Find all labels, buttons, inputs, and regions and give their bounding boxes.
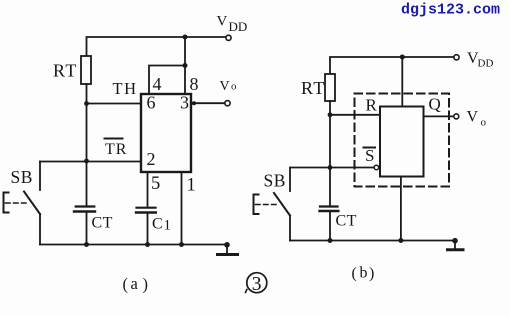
capacitor CT (b) [320,205,338,207]
node: inversion bubble S input [374,165,379,170]
svg-text:RT: RT [301,78,326,98]
svg-text:SB: SB [11,167,33,187]
resistor RT (b) [325,74,335,101]
label TR with overline [105,141,127,158]
node: junction top rail (b) [400,55,405,60]
figure number 3 circled [247,273,267,293]
svg-text:2: 2 [147,149,156,169]
svg-text:(: ( [123,275,129,294]
svg-text:b: b [360,265,368,282]
wire: (b) RT bottom vertical down to CT [329,101,331,206]
wire: (b) bottom rail [290,240,455,242]
label Vo (b) [467,109,487,129]
node: Vo terminal circle (b) [454,114,459,119]
wire: CT to bottom rail [86,213,88,245]
label Vo (a) [220,79,238,94]
wire: SB top to pin 2 [40,161,141,163]
label VDD (b) [467,50,493,70]
node: (a) VDD terminal circle [226,35,231,40]
wire: pins 4 and 8 to VDD [149,37,185,94]
svg-text:V: V [467,109,479,126]
wire: (a) RT bottom vertical down to CT [86,84,88,206]
node: junction TR wire [84,159,89,164]
svg-text:): ) [143,275,149,294]
label VDD (a) [217,14,248,35]
ground (a) [224,242,230,248]
svg-text:CT: CT [92,215,113,232]
node: VDD terminal circle (b) [454,55,459,60]
svg-text:V: V [220,79,230,94]
svg-text:Q: Q [429,95,441,114]
capacitor C1 [137,207,156,209]
svg-text:TR: TR [105,141,127,158]
resistor RT (a) [81,56,91,84]
svg-text:o: o [481,117,487,129]
svg-text:RT: RT [53,61,78,81]
node: junction S wire [328,165,333,170]
node: junction CT bottom [84,242,89,247]
node: junction RT/TH [84,101,89,106]
svg-text:V: V [217,14,228,30]
svg-text:TH: TH [113,79,138,98]
wire: pin 5 down to C1 [147,172,149,206]
svg-text:3: 3 [180,93,189,113]
svg-text:6: 6 [147,93,156,113]
wire: VDD to flip-flop top [401,57,403,107]
svg-text:(: ( [352,265,357,282]
svg-text:C: C [152,216,163,233]
node: junction pin1 bottom [179,242,184,247]
capacitor CT (a) [76,205,95,207]
svg-text:dgjs123.com: dgjs123.com [401,2,500,19]
svg-text:8: 8 [190,74,199,94]
node: junction at VDD rail pin8 [183,35,188,40]
wire: pin 3 output [191,102,225,104]
wire: CT (b) to bottom rail [329,212,331,241]
node: junction FF bottom [398,238,403,243]
switch SB (a) [39,162,41,191]
svg-text:1: 1 [187,176,196,196]
svg-text:a: a [131,274,139,293]
label C1 [152,216,171,234]
wire: S input from SB [291,167,374,169]
svg-text:SB: SB [264,171,286,191]
node: pin3 dot [192,101,196,105]
switch SB (b) [289,168,291,192]
ground (b) [452,238,458,244]
svg-text:DD: DD [229,19,248,34]
wire: TH to pin 6 [87,103,142,105]
node: junction pin4/8 [183,63,188,68]
label (b) [352,265,375,283]
svg-text:DD: DD [478,58,494,70]
svg-text:1: 1 [164,218,172,234]
node: junction R wire [328,112,333,117]
svg-text:R: R [366,96,378,115]
wire: pin 1 down to bottom rail [181,172,183,245]
svg-text:5: 5 [151,174,160,194]
wire: (a) VDD top rail [87,37,226,56]
node: junction C1 bottom [145,242,150,247]
node: junction CT (b) bottom [328,238,333,243]
svg-text:o: o [231,81,237,93]
svg-text:4: 4 [153,74,162,94]
op-amp U1: 555 IC body [141,94,191,172]
wire: R input [330,114,380,116]
wire: C1 to bottom rail [147,214,149,245]
svg-text:3: 3 [252,274,262,295]
svg-text:CT: CT [336,213,357,230]
svg-text:S: S [365,146,374,165]
wire: Q output [424,115,454,117]
flip-flop U2 body [380,107,424,177]
diagram: dashed boundary box [355,94,450,187]
node: Vo terminal circle (a) [225,101,230,106]
wire: flip-flop bottom to ground rail [400,177,402,241]
wire: (a) bottom rail [40,244,227,246]
wire: (b) VDD top rail [330,57,454,74]
svg-text:): ) [369,265,374,282]
label (a) [123,274,149,294]
